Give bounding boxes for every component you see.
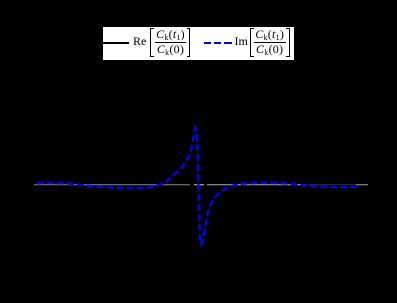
node zero-line right end segment — [356, 184, 368, 186]
legend label Im — [235, 35, 248, 47]
legend Im fraction right bracket — [286, 28, 290, 57]
legend label Re — [133, 35, 146, 47]
node zero-line mid segment — [194, 184, 204, 186]
legend Im fraction numerator — [253, 28, 286, 42]
legend box — [102, 26, 295, 61]
legend Re fraction numerator — [154, 28, 187, 42]
node zero-line right segment — [207, 184, 305, 186]
legend Re fraction bar — [155, 42, 186, 43]
legend Re fraction right bracket — [187, 28, 191, 57]
node zero-line left segment — [34, 184, 190, 186]
legend Re fraction left bracket — [150, 28, 154, 57]
legend Im fraction denominator — [253, 43, 286, 57]
legend Re fraction denominator — [154, 43, 187, 57]
legend Im fraction bar — [254, 42, 286, 43]
wire Im curve (blue dashed) — [35, 128, 358, 244]
node zero-line dim segment — [305, 184, 356, 186]
legend Re line sample — [103, 42, 130, 44]
legend Im fraction left bracket — [250, 28, 254, 57]
legend Im dashed sample — [204, 42, 212, 44]
